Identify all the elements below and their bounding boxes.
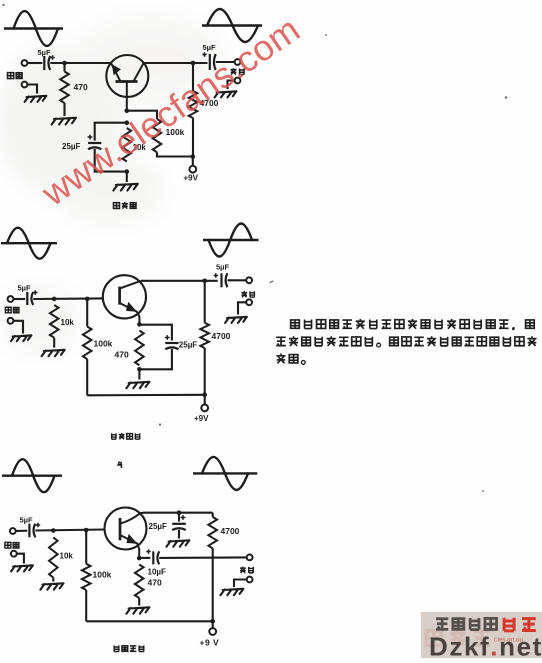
label output (shu-chu) circuit 3 [240, 567, 246, 573]
terminal +9V circuit 2 [201, 405, 208, 412]
wire J5a to C7 [16, 530, 28, 532]
svg-text:470: 470 [115, 350, 129, 360]
wire emitter to C9 [139, 557, 150, 559]
wire rail corner to R12 [212, 513, 214, 517]
polarity + C8 [181, 515, 186, 520]
wire J2b to ground [228, 81, 235, 90]
Q3 emitter arrow [126, 534, 137, 544]
resistor R8 4700 [200, 323, 209, 348]
node +9V junction c2 [202, 393, 207, 398]
wire node B to C2 [95, 123, 127, 141]
svg-text:25µF: 25µF [149, 522, 168, 531]
ground bottom circuit 1 [113, 184, 137, 191]
Q3 collector lead [120, 513, 140, 523]
Q3 base bar [119, 518, 122, 540]
Q1 emitter arrow [112, 64, 121, 75]
ground under J5b [11, 565, 33, 571]
svg-text:470: 470 [148, 578, 162, 588]
capacitor C2 25uF [88, 142, 101, 144]
resistor R10 100k [82, 564, 91, 590]
wire C5 to R7 bottom [139, 349, 172, 369]
wire C1 to Q1 emitter [50, 62, 111, 64]
output terminal J4b [246, 299, 252, 305]
badge title red glyphs (she-qu) [504, 618, 514, 631]
output sine wave (circuit 1) [202, 24, 262, 26]
capacitor C7 5uF [28, 524, 30, 538]
svg-text:10µF: 10µF [148, 568, 167, 577]
ground under J1b [25, 96, 47, 102]
node collector junction c2 [202, 279, 207, 284]
svg-text:+9V: +9V [184, 174, 199, 183]
speck mid-right-1 [325, 34, 327, 36]
wire R4 to +9V node [192, 118, 194, 157]
input sine wave (circuit 3) [2, 475, 62, 477]
wire R5 to ground [53, 338, 55, 348]
wire node to R6 [86, 299, 88, 327]
transistor Q3 body [105, 508, 147, 550]
output terminal J6b [247, 577, 253, 583]
svg-text:4700: 4700 [221, 526, 240, 536]
Q2 collector lead [120, 281, 141, 289]
wire node to R4 [192, 63, 194, 91]
badge background [421, 612, 542, 658]
Q3 emitter lead [120, 535, 139, 558]
capacitor C4 5uF [26, 292, 28, 305]
ground under R9 [40, 583, 63, 589]
input sine wave (circuit 1) [4, 27, 63, 29]
svg-text:5µF: 5µF [38, 48, 51, 57]
node R7 bottom junction [137, 367, 142, 372]
svg-text:+9 V: +9 V [200, 638, 220, 648]
paragraph line 1 [291, 320, 300, 328]
top rail circuit 3 [140, 512, 212, 515]
terminal +9V circuit 1 [189, 166, 196, 173]
wire R12 to bottom rail [212, 548, 214, 621]
badge faint pink glyphs [426, 631, 441, 646]
node 25uF junction [177, 510, 182, 515]
resistor R5 10k [50, 305, 59, 338]
caption common-base (gong-ji-ji) [113, 203, 119, 209]
polarity + C4 [33, 290, 37, 294]
node A base junction [125, 108, 130, 113]
wire to +9V terminal c3 [212, 621, 214, 628]
capacitor C3 5uF output [209, 54, 211, 70]
node B base junction [125, 120, 130, 125]
output terminal J6a [247, 555, 253, 561]
capacitor C6 5uF output [220, 273, 222, 287]
input terminal J5b [11, 551, 17, 557]
wire node to R1 [63, 63, 65, 72]
wire J3b to ground [13, 321, 23, 334]
output terminal J4a [246, 277, 252, 283]
node R10 junction [84, 528, 89, 533]
bottom rail circuit 3 [86, 620, 213, 622]
node R9 junction [51, 528, 56, 533]
wire J5b to ground [17, 554, 24, 564]
resistor R1 470 [60, 72, 69, 104]
wire C4 to Q2 base [33, 297, 103, 300]
svg-text:10k: 10k [60, 552, 74, 561]
resistor R11 470 [135, 565, 144, 599]
wire R8 to bottom rail [204, 348, 206, 395]
speck mid-right-2 [505, 96, 507, 98]
svg-text:4700: 4700 [212, 331, 231, 341]
svg-text:100k: 100k [94, 339, 113, 349]
paragraph line 3 [276, 354, 285, 364]
svg-text:Dzkf.net: Dzkf.net [429, 632, 542, 659]
node Q2 emitter junction [137, 322, 142, 327]
output sine wave inverted (circuit 2) [203, 239, 259, 241]
polarity + C5 [165, 335, 170, 340]
speck right area [482, 490, 484, 492]
wire Q1 collector to output [144, 62, 208, 64]
ground under R7 [126, 382, 149, 388]
input terminal J3b [8, 318, 14, 324]
Q1 base bar [116, 80, 138, 83]
polarity + C1 [50, 55, 54, 59]
wire C6 to J4a [228, 279, 247, 281]
node R5 junction [52, 297, 57, 302]
wire emitter to C5 [139, 325, 172, 341]
wire J3a to C4 [13, 298, 25, 300]
badge title dark glyphs (dian-zi-kai-fa) [436, 619, 448, 630]
node base-input junction [62, 61, 67, 66]
wire to ground circuit1 [126, 172, 128, 182]
Q1 emitter lead [111, 63, 121, 82]
node +9V junction c3 [210, 619, 215, 624]
input terminal J1a [22, 60, 28, 66]
svg-text:100k: 100k [93, 570, 112, 580]
resistor R9 10k [49, 538, 58, 578]
node R6 junction [85, 297, 90, 302]
polarity + C7 [36, 523, 40, 527]
wire R6 to bottom rail [86, 359, 88, 395]
Q1 collector lead [134, 63, 144, 82]
label output (shu-chu) circuit 1 [230, 68, 236, 74]
wire C3 to J2a [216, 61, 235, 63]
output terminal J2b [235, 78, 241, 84]
svg-text:470: 470 [74, 82, 88, 92]
node collector junction [191, 61, 196, 66]
bottom rail circuit 2 [87, 394, 205, 397]
speck below caption 2 [159, 423, 161, 425]
resistor R12 4700 [208, 517, 217, 548]
svg-text:5µF: 5µF [20, 516, 33, 525]
ground under J2b [215, 91, 237, 97]
speck near output c2 [270, 281, 274, 283]
wire node to R8 [204, 281, 206, 323]
caption common-emitter (gong-fa-she-ji) [112, 433, 116, 439]
capacitor C1 5uF [43, 56, 45, 70]
input terminal J3a [8, 296, 14, 302]
wire R9 to ground [52, 578, 54, 582]
transistor Q1 body [106, 55, 148, 97]
label output (shu-chu) circuit 2 [241, 291, 247, 297]
wire R3 bottom to +9V node [157, 152, 193, 156]
svg-text:5µF: 5µF [18, 284, 31, 293]
wire to +9V terminal [192, 157, 194, 166]
label input (shu-ru) circuit 3 [5, 542, 11, 548]
node +9V junction [191, 154, 196, 159]
resistor R7 470 [135, 331, 144, 366]
Q2 base bar [118, 287, 121, 305]
wire C7 to Q3 base [35, 530, 104, 531]
ground under C8 [166, 540, 189, 546]
wire J6b to ground [234, 580, 247, 588]
input terminal J5a [10, 528, 16, 534]
speck top-left [2, 4, 4, 6]
wire Q2 collector to output [141, 280, 218, 282]
output terminal J2a [235, 59, 241, 65]
Q2 emitter lead [120, 303, 140, 324]
Q2 emitter arrow [126, 302, 137, 312]
wire R1 to ground [63, 103, 65, 116]
svg-text:25µF: 25µF [179, 341, 198, 350]
caption common-collector (gong-ji-dian-ji) [114, 645, 119, 651]
ground under R11 [126, 607, 149, 613]
wire C8 to ground [178, 530, 180, 539]
resistor R4 4700 [189, 91, 198, 118]
wire R11 to ground [138, 598, 140, 606]
wire C2 to bottom node [95, 149, 127, 172]
capacitor C9 10uF [152, 551, 154, 564]
polarity + C3 [202, 52, 206, 56]
svg-text:5µF: 5µF [216, 263, 229, 272]
wire node to R10 [85, 530, 87, 564]
svg-text:+9V: +9V [194, 414, 209, 423]
input terminal J1b [22, 82, 28, 88]
wire node A to R3 top [127, 111, 157, 119]
ground under R5 [42, 350, 65, 356]
ground under R1 [52, 118, 76, 125]
node Q3 emitter junction [137, 556, 142, 561]
label input (shu-ru) circuit 2 [5, 307, 11, 313]
transistor Q2 body [103, 275, 146, 318]
resistor R6 100k [83, 327, 92, 360]
wire J1b to ground [27, 85, 37, 94]
wire node to C8 [178, 513, 180, 522]
scan mottle wash [0, 15, 225, 355]
svg-text:10k: 10k [61, 318, 75, 327]
resistor R3 100k [153, 119, 162, 152]
input sine wave (circuit 2) [1, 242, 57, 244]
polarity + C6 [214, 273, 218, 277]
ground under J6b [220, 589, 243, 595]
page mark glyph [118, 462, 122, 469]
resistor R2 10k [123, 128, 132, 162]
wire R7 to ground [138, 369, 140, 379]
wire to +9V terminal c2 [204, 395, 206, 405]
output sine wave (circuit 3) [193, 472, 257, 474]
svg-text:5µF: 5µF [203, 43, 216, 52]
wire J1a to C1 [27, 62, 42, 64]
ground under J3b [11, 335, 31, 341]
wire C9 to J6a [159, 556, 246, 559]
ground under J4b [225, 317, 247, 323]
Q1 base lead [126, 82, 128, 111]
paragraph line 2 [276, 337, 286, 345]
node emitter-bottom junction [125, 169, 130, 174]
wire R10 to bottom rail [85, 590, 87, 621]
capacitor C5 25uF [165, 342, 178, 344]
polarity + C9 [146, 549, 150, 553]
capacitor C8 25uF [172, 523, 186, 525]
terminal +9V circuit 3 [209, 628, 216, 635]
polarity + C2 [88, 135, 93, 140]
label input (shu-ru) circuit 1 [7, 73, 13, 79]
wire J4b to ground [238, 302, 246, 314]
